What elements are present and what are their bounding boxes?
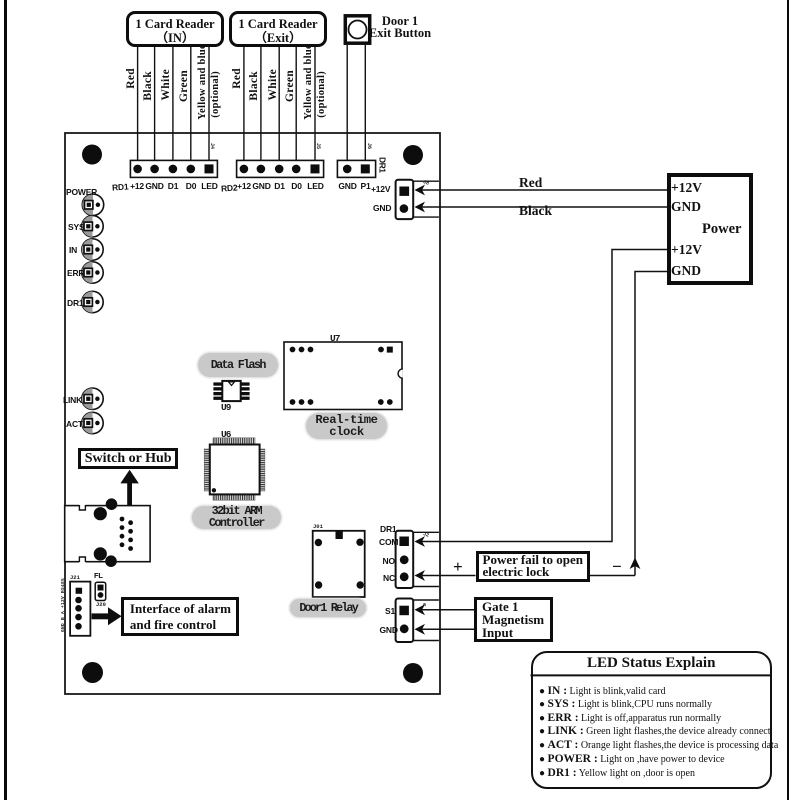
LED IN <box>82 239 103 260</box>
rotated wire label optional (Exit) <box>316 71 327 118</box>
LED status item ACT <box>539 739 779 751</box>
box Switch or Hub <box>78 448 178 469</box>
terminal block DR1 COM/NO/NC <box>396 531 439 588</box>
connector J21 <box>70 582 90 636</box>
page right border <box>787 0 790 800</box>
terminal block door1 GND P1 <box>337 160 375 177</box>
terminal block +12V/GND (lock power) <box>396 180 439 219</box>
label NC <box>383 573 395 583</box>
terminal block S1/GND <box>396 599 439 643</box>
card reader Exit box <box>229 11 327 47</box>
connector label J21 <box>70 574 80 581</box>
LED status title <box>531 655 773 672</box>
pin label RD1 D0 <box>176 181 206 191</box>
wire reader IN +12 <box>137 44 139 160</box>
LED label DR1 <box>67 298 83 308</box>
wire Red (+12V to power) <box>415 185 668 196</box>
rotated wire label Black (Exit) <box>249 71 260 101</box>
rotated wire label White (Exit) <box>268 69 279 101</box>
wire Black (GND to power) <box>415 202 668 213</box>
label COM <box>379 537 398 547</box>
label NO <box>383 556 395 566</box>
wire reader IN D1 <box>172 44 174 160</box>
tiny block mark J4 <box>209 143 215 149</box>
wire reader Exit D1 <box>278 44 280 160</box>
LED ERR <box>82 262 103 283</box>
pin label RD1 LED <box>195 181 225 191</box>
LED label IN <box>69 245 77 255</box>
chip U6 ARM controller <box>204 438 265 500</box>
wire reader Exit D0 <box>295 44 297 160</box>
wire reader IN LED <box>208 44 210 160</box>
wire label Red <box>519 175 542 191</box>
LED label SYS <box>68 222 84 232</box>
rotated wire label Green (IN) <box>179 70 190 102</box>
rotated wire label optional (IN) <box>210 71 221 118</box>
rotated wire label White (IN) <box>161 69 172 101</box>
relay J01 door1 <box>313 531 365 597</box>
tiny pin mark m <box>422 601 427 608</box>
LED status item SYS <box>539 698 779 710</box>
LED label POWER <box>66 187 97 197</box>
exit button symbol <box>345 16 369 43</box>
wire exit button GND <box>346 45 348 160</box>
LED label ERR <box>67 268 84 278</box>
arrow up to switch box <box>120 470 138 506</box>
terminal block RD2 <box>237 160 324 177</box>
tiny pin mark J8 <box>422 179 430 187</box>
power label GND upper <box>671 199 701 215</box>
pill Data Flash <box>198 353 278 377</box>
pin label RD2 D0 <box>282 181 312 191</box>
pin label door P1 <box>351 181 381 191</box>
wire GND to gate box <box>415 624 475 635</box>
label +12V (lock terminal) <box>371 184 390 194</box>
rotated wire label Red (IN) <box>126 68 137 89</box>
LED status item LINK <box>539 725 779 737</box>
pin label RD2 GND <box>247 181 277 191</box>
rotated wire label Black (IN) <box>143 71 154 101</box>
LED status item POWER <box>539 753 779 765</box>
wire reader Exit +12 <box>243 44 245 160</box>
mounting hole bottom-right <box>403 663 423 683</box>
rotated wire label Green (Exit) <box>285 70 296 102</box>
box Gate 1 Magnetism Input <box>474 597 553 642</box>
wire GND down from power <box>630 272 667 576</box>
connector side text <box>61 578 67 632</box>
chip label U9 <box>221 402 230 413</box>
LED label ACT <box>66 419 83 429</box>
terminal block RD1 <box>130 160 217 177</box>
wire S1 to gate box <box>415 604 475 615</box>
wire reader Exit GND <box>260 44 262 160</box>
rotated wire label Red (Exit) <box>232 68 243 89</box>
wire reader Exit LED <box>314 44 316 160</box>
mounting hole top-right <box>403 145 423 165</box>
mounting hole bottom-left <box>82 662 103 683</box>
LED SYS <box>82 216 103 237</box>
wire lock box to GND riser <box>590 575 635 577</box>
LED status item IN <box>539 685 779 697</box>
tiny pin mark J2 <box>422 531 430 539</box>
label GND (S1 block) <box>380 625 398 635</box>
rotated label DR1 (door block) <box>378 157 388 173</box>
pin label RD1 GND <box>140 181 170 191</box>
pin label RD2 LED <box>301 181 331 191</box>
mounting hole top-left <box>82 145 102 165</box>
LED ACT <box>82 412 103 433</box>
power supply box <box>667 173 753 286</box>
pin label door GND <box>333 181 363 191</box>
chip label U6 <box>221 429 230 440</box>
jumper FL / J20 <box>95 582 106 600</box>
thick arrow to alarm interface box <box>92 607 122 625</box>
pin label RD2 +12 <box>229 181 259 191</box>
wire exit button P1 <box>364 45 366 160</box>
pin label RD2 D1 <box>265 181 295 191</box>
LED POWER <box>82 194 103 215</box>
pill 32bit ARM Controller <box>192 506 281 530</box>
chip label U7 <box>330 333 339 344</box>
relay label J01 <box>313 523 323 530</box>
tiny block mark J6 <box>366 143 372 149</box>
power label GND lower <box>671 263 701 279</box>
wire label Black <box>519 203 552 219</box>
page left border <box>4 0 7 800</box>
pin label RD1 +12 <box>122 181 152 191</box>
power label +12V lower <box>671 242 702 258</box>
tiny block mark J5 <box>315 143 321 149</box>
LED label LINK <box>63 395 82 405</box>
plus sign <box>453 557 463 577</box>
box Interface of alarm <box>121 597 239 636</box>
chip U9 data flash <box>213 381 249 401</box>
wire reader IN GND <box>154 44 156 160</box>
wire NC to lock box <box>415 570 476 581</box>
jumper label J20 <box>96 601 106 608</box>
power label +12V upper <box>671 180 702 196</box>
RJ45 jack <box>65 498 150 567</box>
LED LINK <box>82 388 103 409</box>
PCB board outline <box>65 133 440 694</box>
chip U7 real-time clock <box>284 342 403 410</box>
power label Power <box>702 221 741 238</box>
rotated wire label Yellow and blue (IN) <box>197 44 208 120</box>
pill Door1 Relay <box>290 599 366 617</box>
LED DR1 <box>82 291 103 312</box>
rotated wire label Yellow and blue (Exit) <box>303 44 314 120</box>
pin label RD1 D1 <box>158 181 188 191</box>
wire reader IN D0 <box>190 44 192 160</box>
minus sign <box>612 557 622 577</box>
LED status box separator <box>531 674 773 676</box>
label S1 <box>385 606 395 616</box>
pin label RD2 <box>221 182 238 193</box>
LED status explain box <box>531 651 773 790</box>
card reader IN box <box>126 11 224 47</box>
label DR1 (relay terminals) <box>380 524 396 534</box>
label door1 exit button <box>360 15 440 39</box>
box Power fail to open electric lock <box>476 551 591 583</box>
label GND (lock terminal) <box>373 203 391 213</box>
wire +12V to COM (lock power) <box>415 250 668 547</box>
LED status item ERR <box>539 712 779 724</box>
jumper label FL <box>94 571 103 580</box>
LED status item DR1 <box>539 767 779 779</box>
pill Real-time clock <box>306 413 387 440</box>
pin label RD1 <box>112 181 129 192</box>
